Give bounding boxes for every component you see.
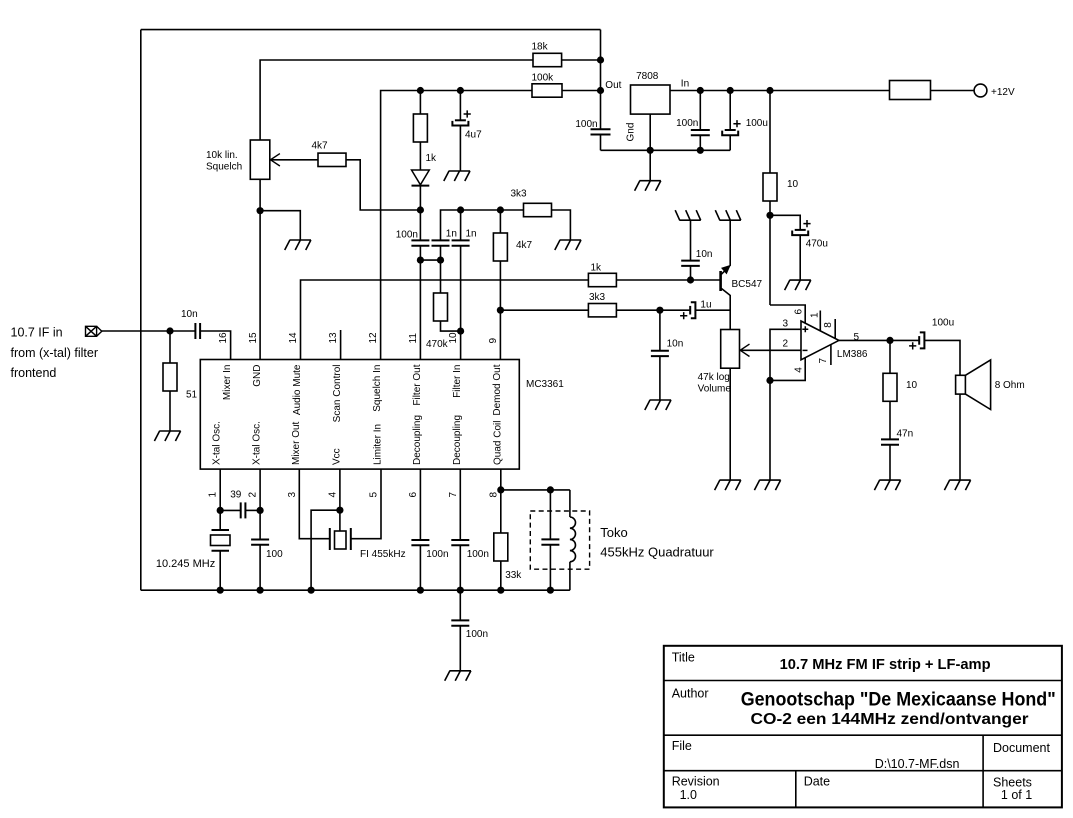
svg-text:6: 6 (408, 492, 419, 498)
flipped ground (10n base) (675, 210, 701, 220)
node pin 8 branch (497, 486, 504, 493)
pin stub 7 (830, 344, 832, 365)
ground (speaker) (944, 480, 970, 490)
capacitor 100n (pin 6) (411, 539, 429, 541)
svg-text:10k lin.: 10k lin. (206, 150, 238, 161)
svg-text:7: 7 (448, 492, 459, 498)
svg-text:9: 9 (488, 338, 499, 344)
capacitor 1n (first) (440, 246, 442, 260)
wire filter to pin 5 (351, 469, 381, 539)
node audio 10n/1u junction (656, 307, 663, 314)
ground (zobel) (874, 480, 900, 490)
ground (3k3) (555, 240, 581, 250)
ceramic filter FI455kHz (329, 528, 331, 550)
wire 3k3 to ground (552, 210, 571, 240)
wire pot bottom to GND pin 15 (259, 179, 261, 359)
svg-text:39: 39 (230, 489, 242, 500)
capacitor 10n (input) (194, 323, 196, 339)
capacitor 470u (electrolytic) (795, 229, 806, 231)
svg-text:7: 7 (818, 358, 829, 364)
svg-text:Vcc: Vcc (331, 448, 342, 465)
resistor 10 (zobel) (889, 340, 891, 373)
node pin 11 jumper right (437, 257, 444, 264)
wire pin 4 to +8V rail (311, 510, 340, 590)
node 470u branch (766, 212, 773, 219)
title block divider date (795, 771, 797, 808)
node pin 11 jumper left (417, 257, 424, 264)
svg-text:Toko: Toko (600, 525, 627, 540)
svg-text:Filter Out: Filter Out (412, 364, 423, 405)
svg-text:1u: 1u (700, 299, 711, 310)
svg-text:18k: 18k (532, 41, 549, 52)
svg-text:470u: 470u (806, 239, 828, 250)
capacitor 10n (audio, to ground) (659, 310, 661, 351)
capacitor 100n (rail) (451, 619, 469, 621)
op-amp U2 LM386 (801, 321, 839, 360)
pin stub 1 (819, 311, 821, 332)
title block row line 3 (664, 770, 1062, 772)
svg-text:4u7: 4u7 (465, 130, 482, 141)
wire squelch pot top to 18k (y=60) (260, 60, 533, 140)
crystal 10.245 MHz (212, 529, 230, 531)
node pin 6 rail (417, 587, 424, 594)
wire LM386 pin 3 to ground net (770, 329, 801, 480)
svg-text:File: File (672, 739, 692, 753)
svg-text:Squelch In: Squelch In (372, 365, 383, 412)
svg-text:14: 14 (288, 332, 299, 344)
svg-text:FI 455kHz: FI 455kHz (360, 549, 406, 560)
node 1n second top (457, 206, 464, 213)
capacitor 47n (881, 438, 899, 440)
wire speaker to ground (959, 394, 961, 480)
svg-text:5: 5 (369, 492, 380, 498)
resistor 4k7 (demod) (499, 210, 501, 233)
wire rail to bottom 100n (459, 590, 461, 620)
svg-text:100: 100 (266, 549, 283, 560)
svg-text:Scan Control: Scan Control (332, 365, 343, 423)
wire +8V frame top (141, 29, 601, 31)
wire 10n top to flipped ground (690, 220, 692, 260)
svg-text:16: 16 (218, 332, 229, 344)
capacitor 10n (base) (690, 266, 692, 280)
potentiometer 47k log Volume (721, 330, 740, 369)
node pin 4 branch (336, 507, 343, 514)
wire emitter to flipped ground (729, 220, 731, 266)
node pot bottom / pin 15 / ground tap (257, 207, 264, 214)
dashed box Toko (530, 511, 589, 569)
svg-text:Demod Out: Demod Out (492, 364, 503, 415)
wire pot bottom node to ground (260, 211, 300, 240)
node demod out audio tap (497, 307, 504, 314)
wire output pin 5 (839, 339, 919, 341)
wire fuse to +12V terminal (931, 90, 975, 92)
svg-text:GND: GND (252, 365, 263, 387)
svg-text:7808: 7808 (636, 71, 659, 82)
svg-text:15: 15 (248, 332, 259, 344)
svg-text:3: 3 (783, 318, 789, 329)
svg-text:Limiter In: Limiter In (373, 424, 384, 465)
svg-text:frontend: frontend (11, 366, 57, 380)
wire 4k7 to audio node (499, 261, 501, 360)
svg-text:1 of 1: 1 of 1 (1001, 788, 1032, 802)
svg-text:13: 13 (328, 332, 339, 344)
wire 470k bottom to pin 10 node (441, 321, 461, 331)
pin 13 stub wire (340, 330, 342, 360)
svg-text:10: 10 (906, 380, 918, 391)
node gnd rail junction (647, 147, 654, 154)
svg-text:In: In (681, 79, 689, 90)
svg-text:Decoupling: Decoupling (412, 415, 423, 465)
svg-text:Decoupling: Decoupling (452, 415, 463, 465)
node quad cap top (547, 486, 554, 493)
svg-text:100n: 100n (676, 118, 698, 129)
svg-text:10n: 10n (696, 249, 713, 260)
node squelch line at 1k/diode/100n (417, 206, 424, 213)
transistor Q1 BC547 (719, 271, 722, 291)
wire 4k7 to squelch line (346, 160, 422, 210)
label + input (802, 326, 808, 332)
wire +8V frame right drop to 7808 Out (600, 30, 602, 91)
wire +8V bottom rail (141, 589, 570, 591)
speaker 8 Ohm (956, 375, 966, 394)
regulator 7808 (631, 85, 671, 114)
capacitor 100n (pin 7) (451, 539, 469, 541)
node pin 2 / 39pF (257, 507, 264, 514)
svg-text:3k3: 3k3 (589, 292, 606, 303)
wire 10 ohm to 470u node (769, 201, 771, 306)
ground (volume pot) (715, 480, 741, 490)
potentiometer 10k lin. Squelch (250, 140, 269, 179)
svg-text:100u: 100u (932, 318, 954, 329)
wire Out node down to 100n (7808 out) (600, 91, 602, 130)
capacitor 100 (251, 539, 269, 541)
wire +8V to LM386 pin 6 (770, 305, 805, 323)
wire pin 1 to crystal node (219, 469, 221, 530)
svg-text:Audio Mute: Audio Mute (292, 364, 303, 415)
wire coil column down (569, 490, 571, 517)
wire 1n top corner to right squelch segment (441, 210, 461, 240)
ground (audio 10n) (645, 400, 671, 410)
svg-text:1k: 1k (591, 263, 603, 274)
svg-text:5: 5 (854, 332, 860, 343)
label - input (803, 349, 808, 351)
svg-text:10n: 10n (667, 339, 684, 350)
svg-text:D:\10.7-MF.dsn: D:\10.7-MF.dsn (875, 757, 960, 771)
svg-text:100n: 100n (396, 230, 418, 241)
wire 100n bottom to pin 11 node (419, 246, 421, 260)
wire collector down to volume pot (729, 295, 731, 330)
svg-text:BC547: BC547 (732, 279, 763, 290)
svg-text:2: 2 (783, 338, 789, 349)
wire 470u to ground (799, 235, 801, 280)
svg-text:LM386: LM386 (837, 349, 868, 360)
svg-text:Mixer In: Mixer In (222, 365, 233, 401)
wiper arrow of squelch pot (271, 154, 280, 166)
capacitor 100n (7808 out) (591, 128, 611, 130)
resistor 33k (494, 533, 508, 561)
svg-text:1.0: 1.0 (680, 788, 697, 802)
wire pin 6 to 100n (419, 469, 421, 540)
IC U1 MC3361 body (200, 360, 519, 470)
svg-text:CO-2 een 144MHz zend/ontvang: CO-2 een 144MHz zend/ontvanger (751, 711, 1029, 728)
svg-text:X-tal Osc.: X-tal Osc. (252, 421, 263, 465)
svg-text:33k: 33k (505, 570, 522, 581)
svg-text:10: 10 (448, 332, 459, 344)
svg-text:4k7: 4k7 (516, 240, 533, 251)
wire pin 2 to 100 cap (259, 469, 261, 539)
wire 3k3 to 1u node (616, 309, 660, 311)
svg-text:1n: 1n (466, 229, 477, 240)
capacitor 4u7 (electrolytic) (455, 119, 466, 121)
node 4u7 branch on 100k line (457, 87, 464, 94)
wire node to 4u7 capacitor (459, 91, 461, 121)
node 100n In branch (697, 87, 704, 94)
resistor 470k (440, 260, 442, 293)
node 100u In branch (727, 87, 734, 94)
node pin 10 / 470k junction (457, 328, 464, 335)
svg-text:8 Ohm: 8 Ohm (995, 380, 1025, 391)
wire volume wiper to LM386 pin 2 (740, 349, 801, 351)
svg-text:10n: 10n (181, 309, 198, 320)
node output zobel junction (886, 337, 893, 344)
resistor 3k3 (audio) (588, 304, 616, 317)
wire pin 8 to quad tank (501, 489, 570, 491)
wire 1u to BC547 collector line (696, 309, 730, 311)
capacitor 100n (7808 in) (699, 91, 701, 131)
svg-text:Author: Author (672, 687, 709, 701)
wire pin 4 to ground junction (770, 358, 805, 381)
wire 100 to rail (259, 545, 261, 590)
resistor 10 (supply) (763, 173, 777, 201)
svg-text:47k log: 47k log (698, 372, 730, 383)
terminal 10.7 IF input (86, 326, 102, 336)
svg-text:100n: 100n (426, 549, 448, 560)
svg-text:Document: Document (993, 741, 1050, 755)
svg-text:11: 11 (408, 333, 419, 344)
wire audio line pin9 to 3k3 (500, 309, 588, 311)
wire decoupling rail under 7808 (601, 149, 731, 151)
pin stub 8 (834, 319, 836, 339)
svg-text:Volume: Volume (698, 383, 732, 394)
svg-text:12: 12 (368, 332, 379, 344)
title block frame (664, 646, 1062, 808)
diode D1 (squelch) (412, 170, 430, 185)
node 100 rail (257, 587, 264, 594)
wire 18k right to node (562, 59, 601, 61)
svg-text:1: 1 (208, 492, 219, 498)
ground (rail) (445, 671, 471, 681)
wire pin 3 to filter (299, 469, 330, 539)
capacitor 100u (electrolytic, 7808 in) (729, 91, 731, 131)
node base 10n junction (687, 276, 694, 283)
svg-text:4: 4 (794, 367, 805, 373)
wire 10n to pin 16 (200, 331, 231, 360)
wire node to 1u cap (660, 309, 690, 311)
wire 51 to ground (169, 391, 171, 431)
svg-text:Revision: Revision (672, 775, 720, 789)
wire wiper to 4k7 (271, 159, 319, 161)
wire base node to transistor base (691, 279, 720, 281)
svg-text:100u: 100u (746, 118, 768, 129)
wire 7808 gnd pin (649, 114, 651, 181)
wire +12V branch down to 10 ohm resistor (769, 91, 771, 174)
svg-text:Gnd: Gnd (626, 123, 637, 142)
svg-text:3: 3 (287, 492, 298, 498)
svg-text:1n: 1n (446, 229, 457, 240)
node pin3/pin4 ground junction (766, 377, 773, 384)
wire 100u to speaker (925, 340, 960, 375)
svg-text:8: 8 (823, 322, 834, 328)
svg-text:100n: 100n (467, 549, 489, 560)
node 7808 Out junction (597, 87, 604, 94)
svg-text:Squelch: Squelch (206, 161, 242, 172)
wire 100k line (pin12 riser to Out node) (381, 91, 532, 360)
capacitor 39 (between xtal pins) (220, 509, 241, 511)
node pin 7 rail (457, 587, 464, 594)
title block row line 2 (664, 734, 1062, 736)
wire 100k to Out node (562, 90, 601, 92)
wire 10 to 47n (889, 401, 891, 439)
svg-text:1k: 1k (426, 153, 438, 164)
capacitor 1u (electrolytic, audio coupling) (689, 306, 691, 315)
svg-text:Filter In: Filter In (452, 365, 463, 398)
resistor 100k (532, 84, 562, 97)
resistor 1k (base) (588, 273, 616, 286)
svg-text:470k: 470k (426, 339, 449, 350)
node pin 1 / 39pF (217, 507, 224, 514)
svg-text:455kHz Quadratuur: 455kHz Quadratuur (600, 545, 714, 560)
wire crystal to rail (219, 551, 221, 591)
resistor 51 (169, 331, 171, 363)
capacitor 100u (electrolytic, output) (918, 336, 920, 345)
svg-text:10.7 IF in: 10.7 IF in (11, 326, 63, 340)
svg-text:100n: 100n (466, 629, 488, 640)
inductor quad coil (570, 517, 576, 562)
wire 1k to base node (616, 279, 690, 281)
node vcc rail (308, 587, 315, 594)
wire pin 11 riser (419, 260, 421, 359)
wire right squelch segment (461, 209, 501, 211)
wire coil to rail end (569, 562, 571, 590)
svg-text:Mixer Out: Mixer Out (291, 421, 302, 465)
svg-text:6: 6 (794, 309, 805, 315)
svg-text:+12V: +12V (991, 87, 1015, 98)
ground (7808) (635, 181, 661, 191)
svg-text:Genootschap "De Mexicaanse Hon: Genootschap "De Mexicaanse Hond" (741, 690, 1056, 711)
svg-text:8: 8 (488, 492, 499, 498)
svg-text:100k: 100k (532, 72, 555, 83)
node +12V feed branch (766, 87, 773, 94)
node demod 4k7 top (497, 206, 504, 213)
svg-text:10.7 MHz FM IF strip + LF-amp: 10.7 MHz FM IF strip + LF-amp (780, 656, 991, 673)
svg-text:Title: Title (672, 651, 695, 665)
node quad cap rail (547, 587, 554, 594)
node 18k / +8V drop junction (597, 56, 604, 63)
wire input to 10n (102, 330, 196, 332)
node 33k rail (497, 587, 504, 594)
wire 100n to ground (459, 626, 461, 671)
resistor 1k (squelch) (413, 114, 427, 142)
wire pin 14 audio mute riser (301, 280, 589, 360)
fuse F1 (890, 81, 931, 100)
wire 47n to ground (889, 445, 891, 480)
svg-text:1: 1 (809, 312, 820, 318)
svg-text:4: 4 (327, 492, 338, 498)
ground (LM386) (754, 480, 780, 490)
svg-text:3k3: 3k3 (511, 189, 528, 200)
title block divider document (982, 735, 984, 807)
ground (squelch pot) (285, 240, 311, 250)
svg-text:Date: Date (804, 775, 830, 789)
svg-text:100n: 100n (575, 119, 597, 130)
wire volume pot bottom to ground (729, 368, 731, 480)
svg-text:47n: 47n (897, 428, 914, 439)
ground (4u7) (444, 171, 470, 181)
svg-text:X-tal Osc.: X-tal Osc. (212, 421, 223, 465)
wire node to 1k resistor (419, 91, 421, 115)
terminal +12V (974, 84, 987, 97)
wire pin 4 vcc (339, 469, 341, 531)
svg-text:2: 2 (248, 492, 259, 498)
resistor 4k7 (squelch wiper) (318, 153, 346, 166)
svg-text:10: 10 (787, 179, 799, 190)
capacitor 1n (second, on pin 10 line) (460, 210, 462, 240)
wire node to 470u cap (770, 215, 800, 230)
wire pin 8 down (500, 469, 502, 533)
wire +8V frame left side (140, 30, 142, 591)
svg-text:MC3361: MC3361 (526, 379, 564, 390)
wire tank cap column (549, 490, 551, 540)
svg-text:from (x-tal) filter: from (x-tal) filter (11, 346, 99, 360)
svg-text:10.245 MHz: 10.245 MHz (156, 558, 215, 570)
wire 1k to diode (419, 142, 421, 170)
wire 7808 In to fuse (670, 90, 890, 92)
ground (51) (154, 431, 180, 441)
wire pin 7 to 100n (459, 469, 461, 540)
wire 33k to rail (500, 561, 502, 591)
node input 51 ohm junction (166, 327, 173, 334)
svg-text:4k7: 4k7 (312, 141, 329, 152)
wire 4u7 to ground (459, 126, 461, 171)
resistor 3k3 (squelch to ground) (500, 209, 523, 211)
resistor 18k (533, 53, 562, 66)
wiper arrow of volume pot (740, 344, 749, 356)
wire diode to squelch node (419, 186, 421, 210)
svg-text:51: 51 (186, 390, 198, 401)
node 100n In rail junction (697, 147, 704, 154)
flipped ground (BC547 emitter) (715, 210, 741, 220)
wire jumper between cap columns (420, 259, 440, 261)
svg-text:Quad Coil: Quad Coil (492, 421, 503, 465)
node squelch 1k branch on 100k line (417, 87, 424, 94)
title block row line 1 (664, 680, 1062, 682)
svg-text:Out: Out (605, 80, 621, 91)
capacitor 100n (squelch filter) (419, 210, 421, 240)
capacitor quad tank (541, 538, 559, 540)
ground (470u) (785, 280, 811, 290)
node crystal rail (217, 587, 224, 594)
